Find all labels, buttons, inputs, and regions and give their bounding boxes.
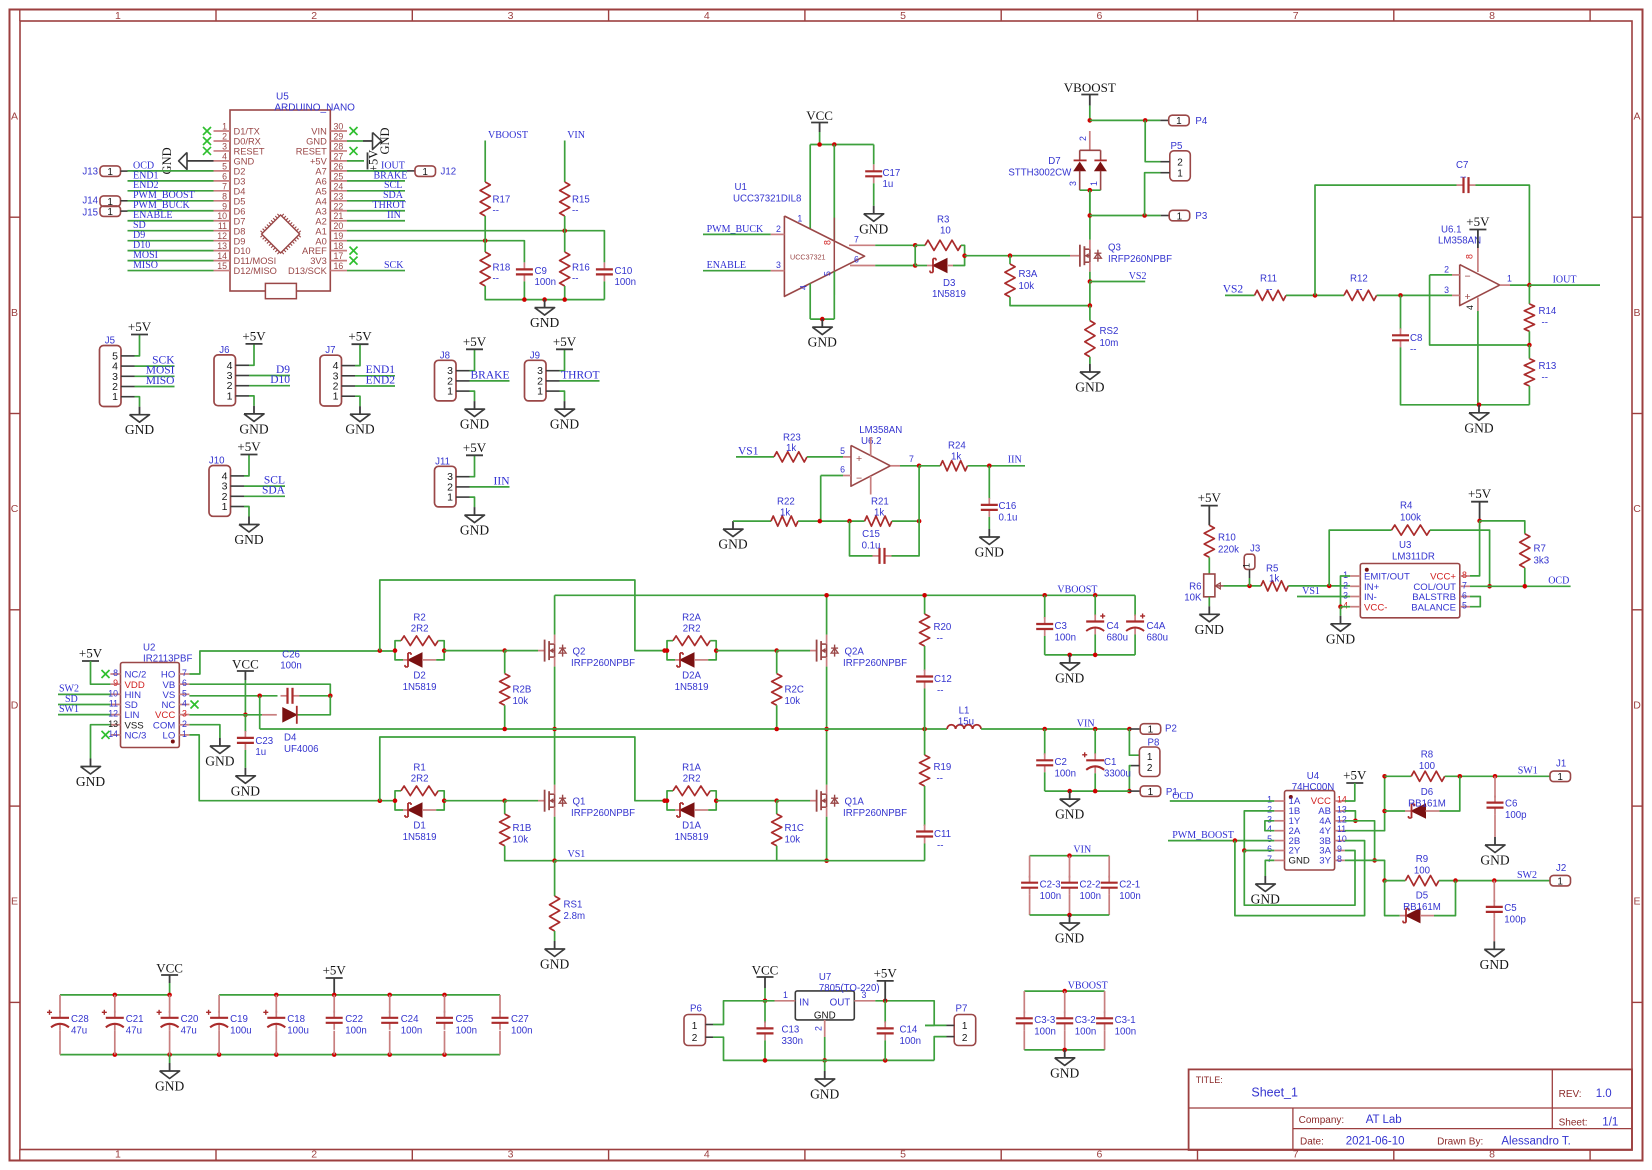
svg-text:C22: C22 <box>345 1014 363 1025</box>
capacitor C23 <box>244 731 246 738</box>
svg-text:25: 25 <box>334 171 344 181</box>
svg-text:J6: J6 <box>219 345 229 356</box>
svg-text:7: 7 <box>854 234 859 244</box>
svg-text:3: 3 <box>776 260 781 270</box>
connector J8 <box>435 360 457 401</box>
wire Q1 drain to mid rail <box>554 729 556 785</box>
wire gnd to R22 <box>733 520 771 522</box>
svg-text:Q3: Q3 <box>1108 243 1121 254</box>
capacitor C3-1 <box>1104 991 1106 1013</box>
wire Q3 source to VS2 node <box>1089 272 1091 282</box>
wire PWM_BOOST to U4 pin5 <box>1168 840 1274 842</box>
svg-text:U2: U2 <box>143 642 155 653</box>
svg-text:C28: C28 <box>71 1014 89 1025</box>
capacitor C4 polarized <box>1094 595 1096 615</box>
connector J12 <box>414 170 416 172</box>
svg-text:1: 1 <box>1177 169 1183 180</box>
junction LO gate feed <box>378 798 383 803</box>
svg-text:GND: GND <box>1050 1065 1079 1080</box>
junction lower-right gate feed <box>662 648 667 653</box>
svg-text:J3: J3 <box>1250 544 1260 555</box>
svg-text:2: 2 <box>692 1033 698 1044</box>
svg-text:PWM_BOOST: PWM_BOOST <box>1172 830 1234 841</box>
svg-text:10: 10 <box>940 226 951 237</box>
ground at RS1 <box>554 941 556 949</box>
wire R1C to VS1 rail <box>777 846 827 861</box>
wire RS1 top <box>554 861 556 896</box>
svg-text:100n: 100n <box>345 1026 367 1037</box>
svg-text:100n: 100n <box>280 661 302 672</box>
svg-text:OCD: OCD <box>1172 791 1193 802</box>
svg-text:P7: P7 <box>956 1004 968 1015</box>
svg-text:1: 1 <box>1557 876 1563 887</box>
svg-text:11: 11 <box>109 698 118 708</box>
wire pin13 to pin12 <box>1345 811 1356 821</box>
svg-text:8: 8 <box>1489 10 1495 22</box>
junction gnd stub VIN <box>1067 789 1072 794</box>
svg-text:J2: J2 <box>1556 863 1566 874</box>
U7 pin1 stub <box>775 1000 796 1002</box>
svg-text:100k: 100k <box>1400 513 1421 524</box>
IC U5 ARDUINO_NANO <box>230 110 330 291</box>
junction C9 bottom <box>522 297 527 302</box>
wire to RS2 <box>1089 306 1091 321</box>
ground at C1 C2 <box>1069 791 1071 799</box>
svg-text:UF4006: UF4006 <box>284 744 318 755</box>
svg-text:+5V: +5V <box>348 329 372 344</box>
svg-text:D7: D7 <box>234 216 246 226</box>
svg-text:P3: P3 <box>1195 211 1207 222</box>
transistor Q1 IRFP260NPBF <box>544 790 546 812</box>
svg-text:13: 13 <box>217 241 227 251</box>
svg-text:1: 1 <box>115 1149 121 1161</box>
svg-text:IN: IN <box>799 998 809 1009</box>
junction A1 node <box>562 228 567 233</box>
svg-text:6: 6 <box>1267 844 1272 854</box>
svg-text:1: 1 <box>1176 116 1182 127</box>
U5 right pin stubs and numbers <box>330 130 347 132</box>
junction R2 left <box>393 648 398 653</box>
svg-text:--: -- <box>1266 285 1272 296</box>
svg-text:19: 19 <box>334 231 344 241</box>
svg-text:100n: 100n <box>456 1026 478 1037</box>
wire IOUT from U5 pin 26 <box>347 170 407 172</box>
wire C17 to gnd <box>873 183 875 206</box>
svg-text:+5V: +5V <box>242 328 266 343</box>
svg-text:A3: A3 <box>315 206 326 216</box>
wire U2 VB rail <box>189 684 330 696</box>
svg-text:J5: J5 <box>105 336 115 347</box>
svg-text:680u: 680u <box>1147 633 1169 644</box>
junction VS2 node <box>1088 279 1093 284</box>
wire Q2 drain to VBOOST rail <box>554 595 556 634</box>
U6.2 pin 6 wire <box>843 475 851 477</box>
svg-text:14: 14 <box>217 251 227 261</box>
U6.1 pin 2 feedback leg <box>1430 275 1530 345</box>
svg-text:R18: R18 <box>493 263 511 274</box>
wire OUT rail <box>875 1001 934 1026</box>
resistor R1C <box>776 801 778 814</box>
svg-text:C3-1: C3-1 <box>1115 1015 1136 1026</box>
wire C7 left leg <box>1315 185 1457 295</box>
resistor R22 <box>771 516 798 526</box>
svg-text:15u: 15u <box>958 717 974 728</box>
resistor R18 <box>480 252 490 286</box>
ground at J8 <box>474 401 476 409</box>
svg-text:C4: C4 <box>1107 621 1120 632</box>
svg-text:220k: 220k <box>1218 544 1239 555</box>
wire Q3 drain <box>1089 190 1091 240</box>
svg-text:1N5819: 1N5819 <box>675 832 709 843</box>
svg-text:J12: J12 <box>441 166 457 177</box>
junction bottom rail <box>167 1052 172 1057</box>
svg-text:C11: C11 <box>934 829 951 840</box>
wire U2 VCC pin to node <box>189 714 245 716</box>
transistor Q2 IRFP260NPBF <box>544 640 546 662</box>
svg-text:7: 7 <box>1267 854 1272 864</box>
wire U4 pin7 gnd <box>1265 860 1274 876</box>
wire U1 pin 8 <box>833 145 835 241</box>
svg-text:LM358AN: LM358AN <box>859 425 902 436</box>
ground at RS2 <box>1089 364 1091 372</box>
wire C3 bank bottom rail <box>1024 1049 1104 1051</box>
capacitor C24 <box>389 995 391 1013</box>
junction +5V U7 <box>883 999 888 1004</box>
wire MOSI to U5 pin 14 <box>128 260 214 262</box>
resistor R1B <box>504 801 506 814</box>
svg-text:1: 1 <box>222 501 228 513</box>
svg-text:2: 2 <box>1267 804 1272 814</box>
svg-text:BRAKE: BRAKE <box>471 369 510 381</box>
svg-text:2R2: 2R2 <box>411 773 429 784</box>
svg-text:A: A <box>1633 111 1640 123</box>
junction pin4 node <box>1338 604 1343 609</box>
svg-text:ARDUINO_NANO: ARDUINO_NANO <box>274 103 355 114</box>
connector P1 <box>1129 790 1140 792</box>
svg-text:GND: GND <box>1464 420 1493 435</box>
svg-text:C14: C14 <box>900 1024 918 1035</box>
connector J10 <box>209 466 231 517</box>
svg-text:30: 30 <box>334 122 344 132</box>
svg-text:26: 26 <box>334 161 344 171</box>
capacitor C17 <box>873 164 875 171</box>
svg-text:C21: C21 <box>126 1014 144 1025</box>
op-amp U6.2 LM358AN <box>851 445 890 486</box>
svg-text:29: 29 <box>334 131 344 141</box>
wire P8 pin2 to gnd rail <box>1129 766 1131 792</box>
wire Q1A source to VS1 <box>826 817 828 861</box>
svg-text:5: 5 <box>1462 601 1467 611</box>
svg-text:R2C: R2C <box>785 685 804 696</box>
svg-text:4: 4 <box>222 151 227 161</box>
junction R2 right <box>442 648 447 653</box>
wire THROT from U5 pin 22 <box>347 210 405 212</box>
svg-text:GND: GND <box>1289 856 1310 867</box>
wire R3A to source <box>1010 297 1090 306</box>
svg-text:IIN: IIN <box>494 475 511 487</box>
capacitor C9 <box>523 262 525 269</box>
wire SD to U2 <box>58 704 110 706</box>
svg-text:+: + <box>1465 291 1471 303</box>
wire 2Y pin6 stub <box>1244 850 1274 852</box>
wire D10 to U5 pin 13 <box>128 250 214 252</box>
svg-text:GND: GND <box>718 537 747 552</box>
capacitor C12 <box>924 670 926 677</box>
wire VS2 to R11 <box>1225 294 1255 296</box>
svg-text:1u: 1u <box>883 179 894 190</box>
wire gate to Q1A <box>777 800 810 802</box>
wire Q1 source to VS1 <box>554 817 556 861</box>
resistor R14 <box>1528 285 1530 304</box>
junction Q1 Q2 phase <box>552 727 557 732</box>
svg-text:U3: U3 <box>1399 540 1411 551</box>
ground at U3 <box>1340 607 1342 616</box>
junction A0 node <box>483 238 488 243</box>
svg-text:A5: A5 <box>315 186 326 196</box>
svg-text:IIN: IIN <box>387 210 401 221</box>
svg-text:8: 8 <box>1462 570 1467 580</box>
svg-text:13: 13 <box>108 719 118 729</box>
wire C8 bottom <box>1401 347 1530 405</box>
junction PWM_BOOST loop <box>1233 838 1238 843</box>
diode D3 1N5819 <box>915 265 927 267</box>
wire R17 to R18 <box>484 216 486 252</box>
svg-text:R22: R22 <box>777 497 795 508</box>
wire R2B to mid rail <box>504 705 506 729</box>
capacitor C10 <box>603 262 605 269</box>
svg-text:6: 6 <box>840 465 845 475</box>
connector J15 <box>100 206 121 217</box>
svg-text:2: 2 <box>776 224 781 234</box>
svg-text:4: 4 <box>799 285 809 290</box>
capacitor C16 <box>988 466 990 499</box>
wire R4 left leg <box>1329 530 1391 586</box>
svg-text:J11: J11 <box>435 456 450 467</box>
junction gnd stub <box>542 297 547 302</box>
resistor R2 <box>395 641 401 651</box>
svg-text:+5V: +5V <box>1343 768 1367 783</box>
svg-text:C24: C24 <box>401 1014 419 1025</box>
IC U7 7805 <box>795 991 854 1020</box>
wire Q2 source to mid rail <box>554 667 556 729</box>
wire C17 top <box>873 145 875 165</box>
svg-text:U4: U4 <box>1307 771 1320 782</box>
ground at J11 <box>474 507 476 515</box>
svg-text:C8: C8 <box>1410 333 1422 344</box>
ground flag at U5 pin 29 <box>347 140 363 142</box>
svg-text:GND: GND <box>1055 670 1084 685</box>
wire J10 top pin to +5V <box>244 455 249 476</box>
svg-text:100n: 100n <box>1075 1027 1097 1038</box>
junction P5 pin1 tee <box>1142 213 1147 218</box>
junction VS node <box>257 694 262 699</box>
svg-text:SDA: SDA <box>262 485 286 497</box>
svg-text:IRFP260NPBF: IRFP260NPBF <box>1108 254 1172 265</box>
wire RS2 to gnd <box>1089 357 1091 364</box>
svg-text:IOUT: IOUT <box>1553 275 1577 286</box>
ground at U7 <box>824 1060 826 1071</box>
svg-text:VS1: VS1 <box>568 849 586 860</box>
connector J2 <box>1550 875 1571 886</box>
svg-text:1N5819: 1N5819 <box>403 832 437 843</box>
svg-text:THROT: THROT <box>561 369 599 381</box>
svg-text:6: 6 <box>854 255 859 265</box>
wire J7 bottom pin to GND <box>355 396 360 406</box>
svg-text:R1A: R1A <box>682 762 701 773</box>
svg-text:7805(TO-220): 7805(TO-220) <box>819 983 880 994</box>
svg-text:C2-2: C2-2 <box>1080 880 1101 891</box>
svg-text:C5: C5 <box>1504 903 1516 914</box>
wire U5 pin 19 A0 to divider <box>347 241 524 263</box>
capacitor C11 <box>924 825 926 832</box>
resistor R3A <box>1009 256 1011 264</box>
svg-text:10: 10 <box>217 211 227 221</box>
junction output node <box>1527 283 1532 288</box>
U5 usb glyph <box>265 283 296 298</box>
svg-text:GND: GND <box>1075 380 1104 395</box>
junction HO gate feed <box>378 648 383 653</box>
svg-text:9: 9 <box>1337 844 1342 854</box>
wire ENABLE to U5 pin 10 <box>128 220 214 222</box>
resistor RS2 <box>1085 321 1095 357</box>
svg-text:100n: 100n <box>615 277 637 288</box>
capacitor C25 <box>444 995 446 1013</box>
svg-text:2: 2 <box>814 1026 824 1031</box>
svg-text:+5V: +5V <box>1198 490 1222 505</box>
resistor R24 <box>940 461 967 471</box>
svg-text:Company:: Company: <box>1299 1115 1345 1126</box>
junction R20 top <box>922 593 927 598</box>
svg-text:+5V: +5V <box>367 150 381 172</box>
wire C3 bank top rail <box>1024 990 1104 992</box>
svg-text:4: 4 <box>182 698 187 708</box>
svg-text:17: 17 <box>334 251 344 261</box>
junction top rail <box>442 993 447 998</box>
wire PWM_BUCK to U1 pin 2 <box>703 233 771 235</box>
wire U7 gnd pin down <box>824 1037 826 1060</box>
svg-text:28: 28 <box>334 141 344 151</box>
svg-text:--: -- <box>937 774 943 785</box>
svg-text:GND: GND <box>1480 957 1509 972</box>
svg-text:R17: R17 <box>493 195 511 206</box>
wire R1A loop to R1C <box>716 800 777 802</box>
junction R1A right <box>714 798 719 803</box>
wire U4 pin3 to pin4 loop <box>1265 821 1274 831</box>
wire VCC rail U1 <box>819 132 821 145</box>
junction P5 pin2 tee <box>1143 118 1148 123</box>
U1 pin 7 wire <box>849 244 875 246</box>
ground at J9 <box>564 401 566 409</box>
wire R20 to C12 <box>924 646 926 671</box>
svg-text:VCC-: VCC- <box>1364 602 1387 613</box>
svg-text:LM311DR: LM311DR <box>1392 552 1435 563</box>
junction C3 top <box>1042 593 1047 598</box>
junction R3A top <box>1008 253 1013 258</box>
wire source to R3A return <box>1089 282 1091 306</box>
svg-text:100u: 100u <box>230 1026 252 1037</box>
junction bottom rail <box>217 1052 222 1057</box>
svg-text:74HC00N: 74HC00N <box>1292 782 1335 793</box>
svg-text:12: 12 <box>108 709 118 719</box>
wire J7 top pin to +5V <box>355 344 360 365</box>
U6.2 top pin <box>870 437 872 456</box>
connector J6 <box>214 355 236 406</box>
op-amp U1 UCC37321DIL8 triangle <box>784 216 864 296</box>
svg-text:GND: GND <box>975 545 1004 560</box>
svg-text:Alessandro T.: Alessandro T. <box>1501 1135 1570 1147</box>
svg-text:C23: C23 <box>255 736 273 747</box>
svg-text:J14: J14 <box>82 195 98 206</box>
svg-text:--: -- <box>937 686 943 697</box>
connector J14 <box>100 196 121 207</box>
svg-text:D5: D5 <box>234 196 246 206</box>
capacitor C2 <box>1044 729 1046 755</box>
svg-text:C10: C10 <box>615 266 633 277</box>
svg-text:C6: C6 <box>1505 799 1517 810</box>
svg-text:GND: GND <box>460 523 489 538</box>
svg-text:U6.1: U6.1 <box>1441 225 1461 236</box>
junction pin6 leg <box>818 519 823 524</box>
svg-text:100u: 100u <box>287 1026 309 1037</box>
wire to P3 <box>1090 215 1161 217</box>
junction U7 gnd <box>822 1058 827 1063</box>
svg-text:VS1: VS1 <box>738 446 759 458</box>
svg-text:P2: P2 <box>1165 724 1177 735</box>
wire pin12 node down to pin8 row <box>1345 821 1375 861</box>
svg-text:16: 16 <box>334 261 344 271</box>
svg-text:1/1: 1/1 <box>1602 1117 1618 1129</box>
svg-text:10k: 10k <box>785 696 801 707</box>
svg-text:A1: A1 <box>315 226 326 236</box>
svg-text:IRFP260NPBF: IRFP260NPBF <box>843 658 907 669</box>
svg-text:+5V: +5V <box>463 440 487 455</box>
svg-text:R2B: R2B <box>513 685 532 696</box>
wire bank gnd rail <box>1045 654 1135 656</box>
svg-text:2: 2 <box>1078 136 1088 141</box>
wire U1 pin 4 <box>809 284 811 320</box>
svg-text:R15: R15 <box>572 195 590 206</box>
svg-text:GND: GND <box>1251 892 1280 907</box>
svg-text:+5V: +5V <box>463 334 487 349</box>
svg-text:10: 10 <box>108 688 118 698</box>
wire +5V to pin8 <box>1470 521 1480 576</box>
svg-text:14: 14 <box>1337 795 1347 805</box>
wire C26 right to VB node <box>300 695 331 697</box>
svg-text:GND: GND <box>810 1087 839 1102</box>
svg-text:R19: R19 <box>934 762 952 773</box>
svg-text:IRFP260NPBF: IRFP260NPBF <box>571 808 635 819</box>
svg-text:100n: 100n <box>1055 769 1077 780</box>
svg-text:12: 12 <box>217 231 227 241</box>
svg-text:8: 8 <box>113 668 118 678</box>
wire LO cross feed to Q1A loop <box>380 737 667 801</box>
capacitor C26 <box>281 695 288 697</box>
svg-text:−: − <box>856 473 862 485</box>
svg-text:1: 1 <box>227 390 233 402</box>
junction J3 stub <box>1247 584 1252 589</box>
svg-text:2R2: 2R2 <box>411 623 429 634</box>
svg-text:10K: 10K <box>1184 593 1202 604</box>
connector J5 <box>100 346 122 407</box>
svg-text:47u: 47u <box>126 1026 142 1037</box>
junction U3 pin2 node <box>1327 584 1332 589</box>
wire OCD from pin7 <box>1470 585 1571 587</box>
connector P6 <box>684 1015 706 1046</box>
wire L1 to VIN node <box>981 728 1129 730</box>
svg-text:VBOOST: VBOOST <box>1068 980 1108 991</box>
svg-text:GND: GND <box>125 422 154 437</box>
svg-text:7: 7 <box>1293 10 1299 22</box>
